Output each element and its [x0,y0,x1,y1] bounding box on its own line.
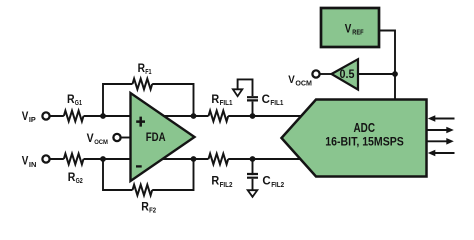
svg-text:V: V [87,131,94,145]
terminal VIN [42,155,49,162]
ground (bottom, for CFIL2) [248,190,258,197]
svg-text:G2: G2 [76,178,83,185]
ADC output arrow 3 (out) [428,138,454,145]
node junction dot CFIL2 [250,156,256,162]
svg-text:R: R [211,176,219,188]
node junction dot RG2/RF2 [100,156,106,162]
node junction dot VREF/0.5 [392,71,398,77]
svg-text:FDA: FDA [146,130,166,144]
wire VOCM terminal to FDA [121,137,132,139]
svg-text:R: R [211,94,219,106]
svg-text:F1: F1 [145,69,151,76]
wire feedback top loop [103,84,194,116]
capacitor CFIL1 [238,79,258,116]
node junction dot RG1/RF1 [100,113,106,119]
svg-text:C: C [262,94,270,106]
svg-text:OCM: OCM [295,80,312,87]
resistor RFIL2 [209,154,229,165]
resistor RFIL1 [209,111,229,122]
terminal VOCM (FDA) [113,134,120,141]
ADC output arrow 2 (out) [428,127,454,134]
svg-text:ADC: ADC [354,121,376,135]
op-amp 0.5 buffer U2 [332,59,359,89]
resistor RF2 [133,185,153,196]
wire top rail [51,115,303,117]
capacitor CFIL2 [247,159,258,190]
svg-text:FIL2: FIL2 [220,182,233,189]
svg-text:V: V [288,74,295,86]
resistor RG2 [64,154,84,165]
ADC output arrow 1 (in) [428,115,455,122]
node junction dot RF1/output top [191,113,197,119]
ground (top, for CFIL1) [233,89,242,96]
wire VREF to junction and down to ADC [379,31,395,101]
svg-text:FIL1: FIL1 [220,100,233,107]
ADC block [282,100,427,177]
svg-text:REF: REF [352,29,364,36]
wire VOCM terminal to 0.5 buffer [320,73,332,75]
svg-text:G1: G1 [75,100,82,107]
wire bottom rail [51,158,303,160]
op-amp FDA [131,93,195,181]
svg-text:V: V [345,22,352,36]
svg-text:FIL2: FIL2 [271,182,284,189]
wire 0.5 buffer output [358,73,395,75]
terminal VOCM (0.5 buffer) [312,70,319,77]
node junction dot CFIL1 [250,113,256,119]
svg-text:16-BIT, 15MSPS: 16-BIT, 15MSPS [325,136,404,148]
svg-text:C: C [262,176,270,188]
resistor RG1 [64,111,84,122]
svg-text:V: V [22,154,29,168]
wire feedback bottom loop [103,159,194,190]
svg-text:F2: F2 [149,208,156,215]
svg-text:OCM: OCM [94,139,108,146]
ADC output arrow 4 (in) [428,150,455,157]
VREF block [321,8,379,47]
terminal VIP [42,112,49,119]
svg-text:IN: IN [29,162,37,169]
resistor RF1 [133,79,153,90]
svg-text:FIL1: FIL1 [270,100,283,107]
FDA plus input marker [136,117,145,127]
node junction dot RF2/output bottom [191,156,197,162]
FDA minus input marker [136,165,142,167]
svg-text:IP: IP [29,117,36,124]
svg-text:V: V [22,109,29,123]
svg-text:0.5: 0.5 [340,69,356,81]
